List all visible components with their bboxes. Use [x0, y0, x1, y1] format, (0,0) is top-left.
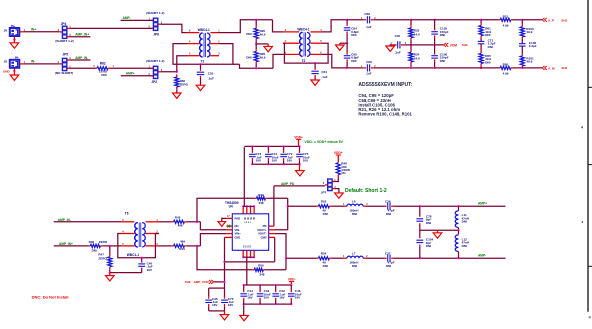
- wire jog into op amp VIN-: [200, 222, 226, 230]
- wire PD pin riser: [273, 186, 275, 226]
- svg-text:3: 3: [582, 220, 584, 224]
- svg-text:C55: C55: [208, 71, 214, 75]
- resistor R24 24.0: [410, 45, 412, 50]
- ground at R20/R26 midpoint: [264, 46, 273, 51]
- resistor R47 ZERO vertical: [109, 246, 111, 255]
- capacitor C43 10uF 10V: [259, 284, 261, 286]
- svg-text:24.0: 24.0: [414, 57, 420, 61]
- wire JP5 pin1 to R62: [70, 67, 95, 69]
- wire T1 pin2 to box right: [219, 44, 233, 65]
- VDD- decoupling rail bottom: [244, 303, 292, 305]
- node C94/C95 midpoint: [346, 42, 348, 44]
- wire VOUT- riser down: [275, 234, 286, 270]
- svg-text:DNI: DNI: [440, 59, 445, 63]
- node filter midpoint right: [457, 229, 459, 231]
- svg-text:JP4: JP4: [61, 22, 67, 26]
- node R47 bottom junction: [109, 271, 111, 273]
- svg-text:4.99: 4.99: [503, 23, 509, 27]
- wire R52 to L6: [332, 205, 345, 207]
- wire C35/C70 box top: [209, 287, 225, 289]
- ground below decoupling rail: [299, 164, 301, 170]
- node C106 bottom on rail: [433, 67, 435, 69]
- svg-text:49.9: 49.9: [526, 60, 532, 64]
- capacitor C72 .1uF 16V: [282, 145, 284, 147]
- capacitor C35 .1uF 16V: [208, 288, 210, 296]
- svg-text:10V: 10V: [264, 296, 270, 300]
- svg-text:.1uF: .1uF: [208, 77, 214, 81]
- svg-text:AMP_IN-: AMP_IN-: [75, 56, 88, 60]
- svg-text:16V: 16V: [287, 159, 293, 163]
- capacitor C71 3.3pF DNI: [478, 40, 485, 42]
- ground below J6: [13, 38, 15, 40]
- wire T1 bottom rail step down: [240, 64, 274, 68]
- resistor R66 ZERO: [176, 74, 178, 77]
- ground below R66: [173, 93, 182, 98]
- capacitor C75 10uF 10V: [298, 145, 300, 147]
- svg-text:49.9: 49.9: [526, 30, 532, 34]
- wire R48 to JP7 pin1: [333, 177, 339, 181]
- wire R62 to JP2 pin1: [110, 67, 153, 69]
- wire to offpage A_P: [522, 19, 542, 21]
- svg-text:T1: T1: [201, 59, 205, 63]
- node C104 bottom: [419, 257, 421, 259]
- ground below JP7: [335, 193, 344, 198]
- svg-text:IN-: IN-: [15, 55, 19, 59]
- ground below C55: [196, 85, 205, 90]
- wire T2 pin4 to top rail: [322, 20, 347, 32]
- svg-text:ZERO: ZERO: [99, 240, 108, 244]
- border tick 1: [588, 86, 592, 88]
- svg-text:AMP_IN-: AMP_IN-: [58, 218, 71, 222]
- svg-text:DNI: DNI: [462, 220, 467, 224]
- svg-text:C45: C45: [395, 34, 401, 38]
- node R20 top: [255, 19, 257, 21]
- node R61 top on rail: [480, 19, 482, 21]
- svg-text:A_P: A_P: [548, 18, 554, 22]
- wire net AMP_IN- to T6 pin6: [54, 221, 121, 223]
- op amp right pins: [269, 225, 274, 227]
- wire junction up to T1 pin5: [177, 56, 188, 72]
- svg-text:AMP_IN+: AMP_IN+: [59, 242, 73, 246]
- wire J6 pin1 to JP4 pin2: [23, 31, 60, 33]
- svg-text:C64: C64: [321, 70, 327, 74]
- jumper JP7: [327, 179, 332, 191]
- svg-text:DNI: DNI: [426, 244, 431, 248]
- node C78 top: [419, 205, 421, 207]
- svg-text:VDD-: VDD-: [288, 278, 296, 282]
- wire R49 to VOUT+ riser: [268, 197, 288, 199]
- wire T1 pin1 to top rail: [219, 20, 256, 33]
- wire net AMP_PD to JP7 pin3: [274, 185, 325, 187]
- node C94 top on rail: [346, 19, 348, 21]
- capacitor C95 6.8pF DNI: [346, 43, 348, 53]
- svg-text:DNI: DNI: [352, 264, 357, 268]
- wire AMP_VCM riser to CM1: [224, 237, 226, 288]
- wire C37 to output AMP-: [394, 257, 506, 259]
- op amp bottom pins bus: [242, 250, 244, 257]
- svg-text:VDD- = VDD+ minus 5V: VDD- = VDD+ minus 5V: [304, 140, 343, 144]
- wire T1 pin4 to box left: [173, 44, 240, 65]
- node R101 bottom: [521, 67, 523, 69]
- svg-text:JP7: JP7: [321, 190, 327, 194]
- svg-text:JP6: JP6: [153, 33, 159, 37]
- wire jog into op amp VIN+: [200, 234, 226, 246]
- svg-text:(SHORT 1-2): (SHORT 1-2): [146, 59, 164, 63]
- svg-text:DNI: DNI: [351, 33, 356, 37]
- svg-text:CM2: CM2: [261, 236, 267, 240]
- svg-text:DNI: DNI: [426, 221, 431, 225]
- svg-text:DNI: DNI: [351, 59, 356, 63]
- op amp top pins bus: [242, 206, 244, 213]
- svg-text:GND: GND: [3, 69, 11, 73]
- svg-text:348: 348: [259, 201, 264, 205]
- filter midpoint wire: [420, 229, 459, 231]
- node L12 bottom: [457, 257, 459, 259]
- resistor R20 49.9 DNI: [255, 20, 257, 26]
- svg-text:WBC4-1: WBC4-1: [198, 28, 210, 32]
- capacitor C104 8pF DNI: [419, 230, 421, 236]
- resistor R23 24.0: [410, 20, 412, 26]
- svg-text:3: 3: [218, 53, 220, 56]
- wire T6 pin4 box left: [118, 234, 142, 258]
- inductor L11 47nH DNI: [458, 206, 460, 210]
- svg-text:R53: R53: [321, 199, 327, 203]
- svg-text:R44: R44: [179, 247, 185, 251]
- capacitor C106 150pF DNI: [434, 45, 436, 53]
- offpage connector A_M: [542, 66, 547, 70]
- svg-text:R54: R54: [321, 251, 327, 255]
- wire T6 pin2 box right: [142, 234, 159, 258]
- svg-text:AMP+: AMP+: [126, 71, 135, 75]
- svg-text:2 2 2 2: 2 2 2 2: [244, 222, 251, 224]
- border corner mark: [589, 316, 591, 318]
- capacitor C46 10uF 10V: [290, 284, 292, 286]
- svg-text:AMP_PD: AMP_PD: [281, 182, 295, 186]
- svg-text:L7: L7: [352, 251, 356, 255]
- node VIN- junction: [196, 221, 198, 223]
- svg-text:10V: 10V: [272, 159, 278, 163]
- border tick 2: [588, 164, 592, 166]
- svg-text:(SHORT 1-2): (SHORT 1-2): [146, 11, 164, 15]
- offpage connector VCM: [444, 43, 449, 47]
- node T1 center tap junction: [199, 63, 201, 65]
- svg-text:AMP_VCM: AMP_VCM: [194, 280, 210, 284]
- wire R47 bottom to C40 bottom: [110, 272, 142, 274]
- wire decoupling rail drop to op amp top bus: [243, 147, 245, 206]
- svg-text:J8: J8: [4, 60, 8, 64]
- bottom rail T2 to C69: [346, 67, 363, 69]
- svg-text:VDD+: VDD+: [294, 135, 303, 139]
- svg-text:.1uF: .1uF: [365, 72, 371, 76]
- svg-text:4: 4: [581, 126, 583, 130]
- wire T2 pin5 to box right: [315, 43, 328, 63]
- svg-text:5 5 5 5: 5 5 5 5: [243, 244, 251, 248]
- wire offpage to AMP_VCM node: [214, 281, 225, 283]
- svg-text:SH3: SH3: [185, 280, 191, 284]
- wire R44 to VIN+ junction: [187, 245, 201, 247]
- resistor R48 10K: [336, 163, 340, 175]
- connector J6 (SMA input IN+): [10, 28, 19, 36]
- ground below R47: [109, 273, 111, 276]
- wire feedback bottom riser: [197, 246, 252, 270]
- wire T6 pin1 to R43: [159, 221, 171, 223]
- node AMP_VCM branch: [223, 261, 225, 263]
- svg-text:16V: 16V: [147, 268, 153, 272]
- svg-text:DNI: DNI: [488, 45, 493, 49]
- top rail left segment: [256, 19, 272, 21]
- node R26 bottom on rail: [255, 67, 257, 69]
- wire C36 to output AMP+: [394, 205, 506, 207]
- svg-text:Default: Short 1-2: Default: Short 1-2: [345, 188, 387, 194]
- svg-text:VDD+: VDD+: [334, 151, 343, 155]
- wire top rail to T2 pin3: [273, 20, 284, 32]
- svg-text:L6: L6: [352, 199, 356, 203]
- node R20/R26 midpoint: [255, 43, 257, 45]
- capacitor C78 8pF DNI: [419, 206, 421, 215]
- output bottom path wire: [286, 257, 316, 259]
- svg-text:J6: J6: [4, 29, 8, 33]
- wire T2 pin6 to bottom rail: [322, 54, 346, 68]
- wire midpoint to ground: [340, 42, 347, 44]
- capacitor C105 150pF DNI: [434, 20, 436, 29]
- svg-text:4.99: 4.99: [503, 71, 509, 75]
- svg-text:R62: R62: [100, 61, 106, 65]
- capacitor C73 .1uF 16V: [251, 145, 253, 147]
- svg-text:WBC4-1: WBC4-1: [297, 27, 309, 31]
- svg-text:U4: U4: [229, 204, 233, 208]
- svg-text:(NO SHORT): (NO SHORT): [55, 71, 73, 75]
- top rail to C68: [347, 19, 364, 21]
- wire R51 to L7: [332, 257, 345, 259]
- resistor R61 49.9 DNI: [480, 20, 482, 23]
- svg-text:348: 348: [259, 272, 264, 276]
- wire JP6 pin2 to T1 pin6: [161, 24, 188, 32]
- svg-text:(SHORT 1-2): (SHORT 1-2): [55, 39, 73, 43]
- node AMP_VCM junction: [223, 281, 225, 283]
- svg-text:DNI: DNI: [386, 264, 391, 268]
- wire to offpage A_M: [522, 67, 542, 69]
- svg-text:WBC1-1: WBC1-1: [127, 253, 139, 257]
- bottom rail C69 to R24: [373, 67, 434, 69]
- wire R46 to T6 pin5: [103, 245, 121, 247]
- wire AMP_VCM branch to CM2 riser: [225, 261, 275, 263]
- svg-text:.1uF: .1uF: [365, 25, 371, 29]
- capacitor C70 .1uF 16V: [224, 288, 226, 296]
- capacitor C94 6.8pF DNI: [346, 20, 348, 24]
- svg-text:DNI: DNI: [246, 55, 251, 59]
- wire net AMP+ to JP2 pin3: [121, 75, 153, 77]
- svg-text:DNI: DNI: [440, 33, 445, 37]
- svg-text:3: 3: [323, 182, 325, 185]
- svg-text:SH3: SH3: [561, 19, 567, 23]
- svg-text:DNI: DNI: [485, 60, 490, 64]
- svg-text:T6: T6: [125, 211, 129, 215]
- capacitor C42 .1uF 16V: [275, 284, 277, 286]
- ground at C94/C95 midpoint: [336, 45, 345, 50]
- capacitor C40 .1uF 16V: [141, 258, 143, 261]
- svg-text:49.9: 49.9: [260, 32, 266, 36]
- wire JP4 pin3 net AMP_IN+: [70, 36, 90, 38]
- wire rail to T2 pin1 riser: [273, 54, 283, 68]
- resistor R100 49.9: [521, 20, 523, 25]
- svg-text:AMP-: AMP-: [123, 16, 131, 20]
- wire JP5 pin3 net AMP_IN-: [70, 59, 90, 61]
- svg-text:C69: C69: [366, 60, 372, 64]
- svg-text:DNI: DNI: [323, 212, 328, 216]
- node output+ tee: [287, 205, 289, 207]
- resistor R26 49.9 DNI: [255, 44, 257, 49]
- connector J8 (SMA input IN-): [10, 60, 19, 68]
- capacitor C41 10uF 10V: [267, 145, 269, 147]
- wire JP4 pin1 to JP6 pin3: [70, 27, 153, 29]
- capacitor C55 1uF: [200, 64, 202, 69]
- inductor L12 47nH DNI: [458, 230, 460, 234]
- VDD- decoupling rail top: [244, 284, 292, 286]
- ground below C35/C70: [224, 311, 226, 315]
- svg-text:C68: C68: [364, 12, 370, 16]
- node C95 bottom on rail: [345, 67, 347, 69]
- node JP2 output junction: [176, 71, 178, 73]
- svg-text:VCM: VCM: [450, 43, 457, 47]
- svg-text:16V: 16V: [228, 303, 234, 307]
- svg-text:R50: R50: [258, 263, 264, 267]
- wire JP2 pin2 to junction: [161, 71, 177, 73]
- svg-text:DNI: DNI: [323, 264, 328, 268]
- svg-text:499: 499: [178, 224, 183, 228]
- svg-text:CM1: CM1: [235, 236, 241, 240]
- wire T2 pin2 to box left: [283, 43, 315, 63]
- resistor R65 49.9 DNI: [480, 44, 482, 51]
- node VIN+ junction: [196, 245, 198, 247]
- top decoupling rail: [244, 145, 299, 147]
- svg-text:SH3: SH3: [462, 43, 468, 47]
- svg-text:DNI: DNI: [352, 212, 357, 216]
- svg-text:IN+: IN+: [31, 28, 36, 32]
- svg-text:DNI: DNI: [246, 32, 251, 36]
- node C106 top junction: [433, 44, 435, 46]
- wire L6 to C36: [365, 205, 384, 207]
- svg-text:T2: T2: [302, 59, 306, 63]
- border tick 3: [588, 265, 592, 267]
- wire R50 to VOUT- riser: [265, 269, 286, 271]
- node T6 center tap junction: [141, 257, 143, 259]
- svg-text:IN+: IN+: [11, 24, 16, 28]
- capacitor C44 .1uF 16V: [243, 284, 245, 286]
- wire net AMP_IN+ to R46: [54, 245, 88, 247]
- wire R43 to VIN- junction: [187, 221, 201, 223]
- svg-text:IN-: IN-: [31, 60, 35, 64]
- no connect X on NC pin: [227, 225, 230, 228]
- svg-text:ØØØØ: ØØØØ: [244, 217, 256, 221]
- svg-text:ZERO: ZERO: [98, 257, 107, 261]
- svg-text:10V: 10V: [295, 296, 301, 300]
- svg-text:JP2: JP2: [151, 80, 157, 84]
- top rail C68 to R23: [373, 19, 411, 21]
- svg-text:DNI: DNI: [101, 73, 106, 77]
- ground below VDD- rail: [243, 304, 245, 315]
- node VCM junction: [410, 44, 412, 46]
- bottom rail R24 to R65 column: [435, 67, 482, 69]
- svg-text:1%: 1%: [341, 171, 346, 175]
- node R100 top: [521, 19, 523, 21]
- wire op amp bottom bus drop to VDD- rail: [246, 257, 248, 285]
- node T2 center tap junction: [314, 62, 316, 64]
- node R24 bottom on rail: [410, 67, 412, 69]
- top rail to R61 column: [411, 19, 481, 21]
- node output- tee: [285, 257, 287, 259]
- resistor R101 49.9: [521, 46, 523, 54]
- wire L7 to C37: [365, 257, 384, 259]
- svg-text:Remove R100, C148, R101: Remove R100, C148, R101: [358, 112, 412, 117]
- node L11 top: [457, 205, 459, 207]
- ground below C64: [311, 80, 320, 85]
- svg-text:24.0: 24.0: [414, 32, 420, 36]
- svg-text:16V: 16V: [256, 159, 262, 163]
- svg-text:DNI: DNI: [485, 33, 490, 37]
- capacitor C64 .1uF: [314, 63, 316, 68]
- wire feedback top riser: [197, 198, 254, 222]
- offpage connector A_P: [542, 18, 547, 22]
- svg-text:DNC: Do Not Install: DNC: Do Not Install: [32, 295, 69, 300]
- wire JP7 pin2 to ground: [335, 189, 339, 193]
- op amp left pins: [226, 225, 232, 227]
- svg-text:R43: R43: [175, 215, 181, 219]
- capacitor C148 3.3pF: [519, 43, 526, 45]
- ground at filter midpoint: [437, 230, 439, 233]
- wire J8 pin1 to JP5 pin2: [23, 63, 60, 65]
- svg-text:.1uF: .1uF: [321, 75, 327, 79]
- wire midpoint to ground: [256, 43, 268, 45]
- wire VOUT+ riser and feedback tap: [275, 198, 288, 230]
- svg-text:17: 17: [227, 215, 230, 218]
- wire C35/C70 box bottom: [209, 310, 225, 312]
- svg-text:3.3pF: 3.3pF: [529, 44, 537, 48]
- node R47 junction: [109, 245, 111, 247]
- node R23 top on rail: [410, 19, 412, 21]
- svg-text:49.9: 49.9: [260, 56, 266, 60]
- svg-text:ADS55S6XEVM INPUT:: ADS55S6XEVM INPUT:: [358, 82, 412, 88]
- svg-text:ZERO: ZERO: [180, 83, 189, 87]
- op amp pin PAD pin17 with ground: [227, 217, 233, 219]
- svg-text:1: 1: [112, 64, 114, 68]
- svg-text:SH3: SH3: [561, 66, 567, 70]
- svg-text:.1uF: .1uF: [395, 50, 401, 54]
- svg-text:AMP_IN+: AMP_IN+: [75, 33, 89, 37]
- svg-text:JP5: JP5: [62, 52, 68, 56]
- svg-text:PAD: PAD: [235, 217, 241, 221]
- output top path wire: [288, 205, 317, 207]
- svg-text:2: 2: [93, 64, 95, 68]
- svg-text:499: 499: [180, 240, 185, 244]
- svg-text:DNI: DNI: [92, 249, 97, 253]
- node C105 top on rail: [433, 19, 435, 21]
- node R65 bottom on rail: [480, 67, 482, 69]
- wire T6 pin3 to R44: [159, 245, 171, 247]
- svg-text:A_M: A_M: [548, 67, 555, 71]
- wire net AMP- to JP6 pin1: [121, 19, 153, 21]
- sheet border right: [587, 0, 589, 312]
- svg-text:AMP+: AMP+: [478, 202, 487, 206]
- svg-text:DNI: DNI: [462, 244, 467, 248]
- svg-text:AMP-: AMP-: [478, 253, 486, 257]
- ground below C45 pin1: [386, 46, 395, 51]
- wire VCM junction to offpage: [411, 44, 443, 46]
- svg-text:DNI: DNI: [386, 212, 391, 216]
